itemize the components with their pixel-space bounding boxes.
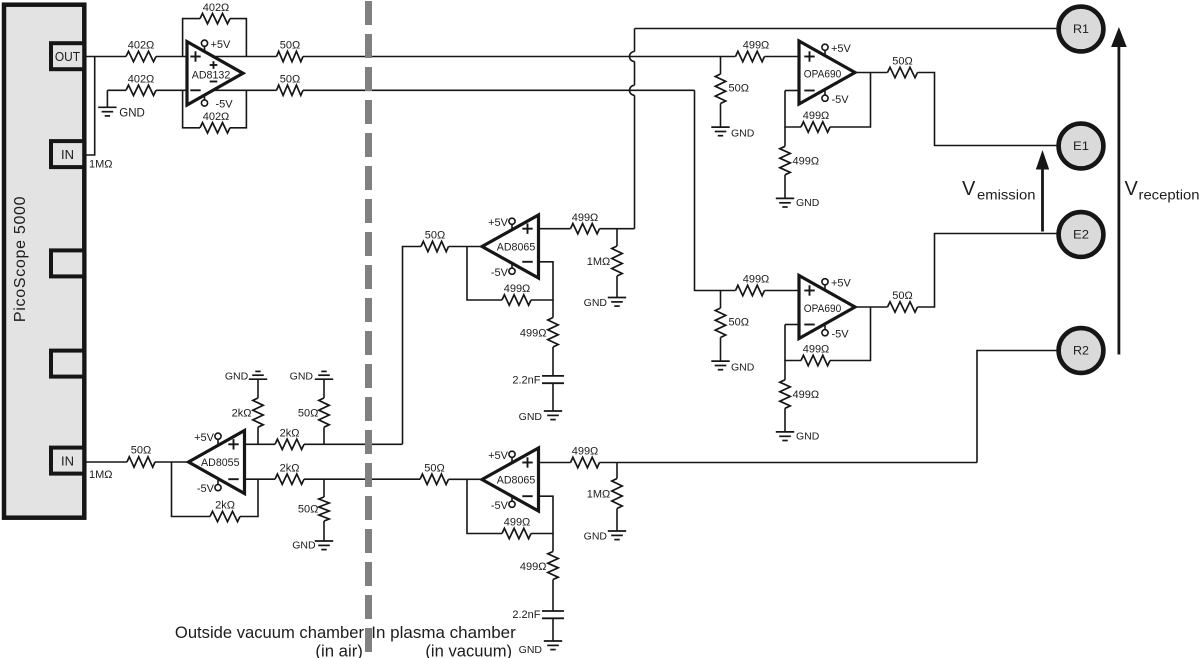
resistor 50 ohm (AD8065-1 output) [421, 241, 449, 251]
wire AD8055 + input [245, 443, 276, 445]
port (blank upper) [51, 250, 84, 276]
resistor 1M ohm (AD8065-1 bias) [616, 229, 618, 246]
svg-text:GND: GND [519, 411, 543, 423]
svg-text:2.2nF: 2.2nF [512, 375, 540, 387]
svg-text:499Ω: 499Ω [743, 274, 770, 286]
svg-text:50Ω: 50Ω [280, 40, 300, 52]
V_reception arrow [1118, 44, 1121, 355]
svg-text:499Ω: 499Ω [504, 283, 531, 295]
V_emission arrow [1041, 166, 1044, 232]
wire AD8065-2 feedback left [467, 479, 502, 533]
wire 499 ohm to 1Mohm node [600, 228, 618, 230]
svg-text:50Ω: 50Ω [425, 230, 445, 242]
svg-text:GND: GND [731, 361, 755, 373]
resistor 50 ohm (OPA690-2 output) [888, 302, 918, 312]
wire AD8065-1 + input to 499 ohm [539, 228, 571, 230]
OPA690-2 +5V supply terminal [822, 279, 828, 285]
resistor 50 ohm (OPA690-2 input shunt) [720, 291, 722, 309]
svg-text:AD8065: AD8065 [497, 242, 536, 254]
wire 50 ohm to AD8055 apex [155, 461, 189, 463]
wire AD8055 feedback [172, 462, 211, 517]
port IN (bottom) [51, 448, 84, 474]
svg-text:50Ω: 50Ω [131, 444, 151, 456]
svg-text:50Ω: 50Ω [280, 74, 300, 86]
ground (above 50 shunt) [323, 379, 325, 398]
port (blank lower) [51, 351, 84, 377]
resistor 499 ohm (OPA690-2 gnd) [784, 361, 786, 380]
wire OPA690-1 feedback - input [785, 90, 799, 92]
wire OPA690-2 feedback right [830, 307, 871, 361]
resistor 50 ohm (AD8055 - path) [420, 474, 449, 484]
svg-text:+5V: +5V [488, 450, 509, 462]
resistor 499 ohm (OPA690-2 input) [736, 285, 765, 295]
svg-text:499Ω: 499Ω [793, 389, 820, 401]
resistor 402 ohm (bottom feedback) [200, 123, 230, 133]
svg-text:499Ω: 499Ω [803, 110, 830, 122]
wire AD8055 output to IN port [86, 461, 127, 463]
op-amp AD8065 (upper) [482, 215, 539, 278]
svg-text:499Ω: 499Ω [572, 212, 599, 224]
svg-text:2.2nF: 2.2nF [512, 609, 540, 621]
resistor 402 ohm (+ input) [126, 51, 156, 61]
svg-text:2kΩ: 2kΩ [280, 428, 300, 440]
svg-text:1MΩ: 1MΩ [587, 489, 611, 501]
svg-text:-5V: -5V [832, 94, 850, 106]
svg-text:+5V: +5V [211, 39, 232, 51]
wire + output to OPA690 upper input [303, 56, 736, 58]
svg-text:emission: emission [977, 187, 1036, 203]
wire OPA690-1 output to E1 [918, 73, 1059, 146]
svg-text:1MΩ: 1MΩ [587, 256, 611, 268]
svg-text:499Ω: 499Ω [572, 446, 599, 458]
op-amp OPA690 (lower) [799, 276, 855, 339]
wire AD8132 + output [214, 56, 277, 58]
wire 50 ohm to AD8065-2 output [449, 478, 468, 480]
wire top feedback right [230, 19, 246, 57]
wire R1 to AD8065 upper (with crossover hops) [634, 29, 636, 52]
svg-text:GND: GND [519, 644, 543, 656]
svg-text:GND: GND [796, 431, 820, 443]
svg-text:+5V: +5V [831, 43, 852, 55]
resistor 2k ohm (AD8055 feedback) [210, 511, 240, 521]
svg-text:GND: GND [119, 108, 145, 120]
svg-text:-5V: -5V [832, 328, 850, 340]
wire to antenna node R1 [635, 28, 1059, 30]
resistor 499 ohm (OPA690-1 feedback) [801, 122, 830, 132]
svg-text:GND: GND [731, 127, 755, 139]
AD8132 +5V supply terminal [201, 40, 207, 46]
ground (AD8065-1 shunt) [552, 383, 554, 411]
resistor 499 ohm (AD8065-2 shunt) [552, 534, 554, 552]
svg-text:V: V [1125, 178, 1139, 200]
resistor 402 ohm (top feedback) [200, 13, 230, 23]
resistor 499 ohm (OPA690-2 feedback) [801, 355, 830, 365]
svg-text:2kΩ: 2kΩ [232, 407, 252, 419]
svg-text:402Ω: 402Ω [128, 74, 155, 86]
svg-text:GND: GND [796, 197, 820, 209]
wire 499 ohm to OPA690-1 + input [765, 56, 800, 58]
wire AD8065-1 feedback to - input [531, 262, 553, 300]
op-amp AD8065 (lower) [482, 448, 539, 511]
svg-text:R2: R2 [1073, 344, 1089, 358]
svg-text:OPA690: OPA690 [804, 303, 842, 315]
wire + input to riser [304, 443, 403, 445]
svg-text:PicoScope 5000: PicoScope 5000 [12, 196, 29, 322]
OPA690-1 +5V supply terminal [822, 44, 828, 50]
wire - output toward OPA690 lower [303, 89, 695, 91]
node R2 [1059, 328, 1104, 373]
svg-text:402Ω: 402Ω [128, 40, 155, 52]
wire OPA690-1 output [855, 72, 888, 74]
capacitor 2.2nF (AD8065-1) [552, 347, 554, 376]
svg-text:AD8065: AD8065 [497, 475, 536, 487]
PicoScope 5000 enclosure box [4, 5, 84, 518]
svg-text:(in air): (in air) [315, 641, 363, 658]
wire bottom feedback left [183, 90, 200, 128]
svg-text:402Ω: 402Ω [203, 111, 230, 123]
svg-text:+5V: +5V [488, 217, 509, 229]
op-amp AD8055 [189, 431, 245, 494]
wire OPA690-2 feedback - input [785, 324, 799, 326]
wire 499 ohm to OPA690-2 + input [765, 290, 800, 292]
ground (AD8065-2 shunt) [552, 618, 554, 641]
svg-text:-5V: -5V [216, 99, 234, 111]
svg-text:E2: E2 [1073, 228, 1089, 242]
svg-text:reception: reception [1139, 187, 1200, 203]
resistor 402 ohm (- input) [126, 85, 156, 95]
port OUT [51, 43, 84, 69]
wire AD8132 - output [214, 89, 277, 91]
svg-text:E1: E1 [1073, 139, 1089, 153]
wire OPA690-2 output [855, 306, 888, 308]
svg-text:AD8055: AD8055 [201, 457, 240, 469]
AD8132 -5V supply terminal [201, 100, 207, 106]
svg-text:50Ω: 50Ω [892, 290, 912, 302]
wire 402 ohm to AD8132 + input [156, 56, 187, 58]
OPA690-1 -5V supply terminal [822, 95, 828, 101]
resistor 50 ohm (+ line shunt) [323, 427, 325, 444]
wire OPA690-2 feedback left [785, 325, 801, 361]
wire AD8065-1 feedback left [467, 247, 502, 301]
svg-text:OPA690: OPA690 [804, 69, 842, 81]
resistor 2k ohm (AD8055 + input series) [275, 439, 304, 449]
ground (AD8065-2 bias) [616, 509, 618, 532]
resistor 499 ohm (AD8065-2 + input) [571, 457, 600, 467]
svg-text:499Ω: 499Ω [520, 328, 547, 340]
ground (OPA690-2 input shunt) [720, 338, 722, 362]
wire bottom feedback right [230, 90, 246, 128]
svg-text:1MΩ: 1MΩ [89, 469, 113, 481]
resistor 50 ohm (AD8055 output) [127, 457, 155, 467]
node E1 [1059, 124, 1104, 169]
wire AD8065-2 feedback to - input [531, 496, 553, 533]
node R1 [1059, 7, 1104, 52]
svg-text:499Ω: 499Ω [743, 40, 770, 52]
ground (OPA690-2 gnd) [784, 408, 786, 432]
svg-text:50Ω: 50Ω [298, 503, 318, 515]
resistor 499 ohm (OPA690-1 gnd) [784, 127, 786, 146]
op-amp OPA690 (upper) [799, 41, 855, 104]
resistor 499 ohm (OPA690-1 input) [736, 51, 765, 61]
svg-text:50Ω: 50Ω [424, 463, 444, 475]
svg-text:499Ω: 499Ω [803, 344, 830, 356]
wire OUT port to 402 ohm [86, 56, 126, 58]
AD8065-2 +5V supply terminal [509, 451, 515, 457]
resistor 50 ohm (AD8132 + output) [277, 51, 304, 61]
svg-text:1MΩ: 1MΩ [89, 159, 113, 171]
svg-text:50Ω: 50Ω [892, 56, 912, 68]
svg-text:499Ω: 499Ω [504, 517, 531, 529]
resistor 50 ohm (OPA690-1 input shunt) [720, 57, 722, 75]
wire down to OPA690 lower input [695, 90, 736, 290]
capacitor 2.2nF (AD8065-2) [552, 580, 554, 612]
svg-text:R1: R1 [1073, 22, 1089, 36]
svg-text:+5V: +5V [831, 277, 852, 289]
svg-text:-5V: -5V [197, 483, 215, 495]
wire AD8065-2 + input to 499 ohm [539, 462, 571, 464]
svg-text:499Ω: 499Ω [793, 156, 820, 168]
OPA690-2 -5V supply terminal [822, 330, 828, 336]
resistor 1M ohm (AD8065-2 bias) [616, 463, 618, 479]
svg-text:GND: GND [225, 370, 249, 382]
ground (below - shunt) [323, 521, 325, 541]
port IN (top) [51, 141, 84, 167]
svg-text:50Ω: 50Ω [729, 316, 749, 328]
AD8055 -5V supply terminal [215, 485, 221, 491]
wire OPA690-1 feedback left [785, 91, 801, 128]
resistor 499 ohm (AD8065-1 + input) [571, 224, 600, 234]
wire AD8065-1 output down to AD8055 [403, 247, 422, 445]
svg-text:+5V: +5V [194, 432, 215, 444]
resistor 499 ohm (AD8065-2 feedback) [502, 528, 531, 538]
svg-text:2kΩ: 2kΩ [215, 500, 235, 512]
svg-text:Outside vacuum chamber: Outside vacuum chamber [175, 623, 365, 642]
wire 1Mohm loopback OUT to IN [86, 57, 94, 156]
AD8065-1 +5V supply terminal [509, 218, 515, 224]
wire OPA690-2 output to E2 [918, 234, 1059, 308]
resistor 2k ohm (AD8055 + input shunt) [257, 427, 259, 444]
svg-text:(in vacuum): (in vacuum) [425, 641, 512, 658]
ground (OPA690-1 input shunt) [720, 104, 722, 128]
svg-text:402Ω: 402Ω [203, 2, 230, 14]
svg-text:In plasma chamber: In plasma chamber [371, 623, 516, 642]
wire AD8055 - input [245, 478, 276, 480]
resistor 50 ohm (AD8132 - output) [277, 85, 304, 95]
svg-text:50Ω: 50Ω [298, 407, 318, 419]
ground (above + shunt) [257, 379, 259, 398]
wire AD8065-1 output [449, 246, 483, 248]
svg-text:GND: GND [290, 370, 314, 382]
wire up to antenna node R2 [977, 351, 1058, 463]
resistor 50 ohm (OPA690-1 output) [888, 67, 918, 77]
svg-text:GND: GND [292, 539, 316, 551]
svg-text:GND: GND [584, 531, 608, 543]
AD8055 +5V supply terminal [215, 433, 221, 439]
AD8065-2 -5V supply terminal [509, 501, 515, 507]
wire AD8065-2 output [467, 478, 482, 480]
svg-text:AD8132: AD8132 [192, 69, 231, 81]
resistor 499 ohm (AD8065-1 feedback) [502, 295, 531, 305]
resistor 499 ohm (AD8065-1 shunt) [552, 300, 554, 318]
resistor 50 ohm (- line shunt) [323, 479, 325, 497]
resistor 2k ohm (AD8055 - input series) [275, 474, 304, 484]
ground (AD8065-1 bias) [616, 276, 618, 298]
op-amp AD8132 [187, 42, 243, 105]
svg-text:-5V: -5V [491, 500, 509, 512]
AD8065-1 -5V supply terminal [509, 268, 515, 274]
svg-text:V: V [962, 178, 976, 200]
wire GND 402 ohm to AD8132 - input [107, 89, 126, 91]
wire - input to 50 ohm [304, 478, 420, 480]
svg-text:GND: GND [584, 297, 608, 309]
wire OPA690-1 feedback right [830, 73, 871, 128]
chamber boundary dashed line [365, 1, 372, 654]
ground (AD8132 - input) [106, 90, 108, 107]
wire top feedback left [183, 19, 200, 57]
svg-text:2kΩ: 2kΩ [280, 462, 300, 474]
wire feedback to - input riser [240, 479, 258, 516]
svg-text:OUT: OUT [55, 49, 80, 64]
ground (OPA690-1 gnd) [784, 175, 786, 199]
svg-text:IN: IN [61, 453, 74, 468]
svg-text:-5V: -5V [491, 267, 509, 279]
node E2 [1059, 212, 1104, 257]
svg-text:IN: IN [61, 147, 74, 162]
svg-text:499Ω: 499Ω [520, 561, 547, 573]
svg-text:50Ω: 50Ω [729, 82, 749, 94]
wire 499 ohm to R2 node [600, 462, 978, 464]
